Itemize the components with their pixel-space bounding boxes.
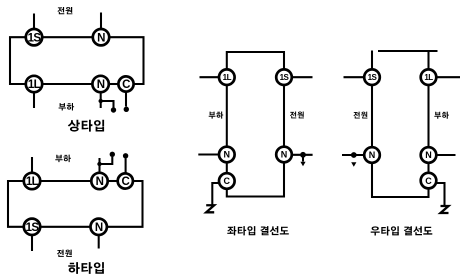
- svg-text:1S: 1S: [368, 73, 378, 82]
- terminal D1 C: [118, 76, 133, 91]
- svg-text:N: N: [281, 150, 288, 160]
- svg-text:C: C: [122, 79, 130, 91]
- terminal D4 N-right: [421, 147, 437, 163]
- terminal D4 1S: [364, 69, 380, 85]
- svg-text:N: N: [96, 176, 104, 188]
- svg-text:N: N: [425, 150, 432, 160]
- wire D4 bottom return N-left to C: [372, 163, 429, 198]
- wire D3 bottom return C to N-right: [227, 162, 284, 197]
- arrow D4 tap arrow (down): [351, 162, 356, 167]
- svg-text:1S: 1S: [28, 32, 42, 44]
- mark D3 lamp mark (z symbol): [206, 205, 214, 212]
- wire D4 left column 1S to N: [371, 85, 373, 148]
- wire D3 link N to C: [226, 162, 228, 174]
- wire D2 stub above 1L: [31, 157, 33, 173]
- terminal D4 N-left: [364, 147, 380, 163]
- wire D1 right frame N-top to C: [109, 37, 144, 84]
- label D2 load (부하): [55, 155, 71, 163]
- terminal D3 1S: [276, 69, 292, 85]
- wire D1 stub below 1L: [33, 92, 35, 108]
- junction dot D4 tap on N lead: [351, 152, 357, 158]
- junction dot D1 C lead end: [124, 107, 129, 112]
- label D4 power (전원): [353, 112, 367, 119]
- junction dot D3 tap on N lead: [300, 152, 306, 158]
- label D1 load (부하): [59, 103, 75, 111]
- label D3 caption (좌타입 결선도): [227, 226, 288, 235]
- terminal D3 1L: [219, 69, 235, 85]
- wire D1 left frame 1S to 1L: [10, 37, 26, 84]
- wire D2 stub below 1S: [31, 235, 33, 251]
- arrow D3 tap arrow (down): [300, 162, 305, 167]
- junction dot D2 N jumper junction: [97, 162, 101, 166]
- wire D3 lead left of 1L: [200, 76, 220, 78]
- svg-text:N: N: [97, 32, 105, 44]
- label D4 caption (우타입 결선도): [371, 226, 433, 235]
- wire D4 stub above 1S: [371, 51, 373, 70]
- wire D2 bottom link 1S to N: [40, 226, 91, 228]
- svg-text:C: C: [224, 176, 231, 186]
- svg-text:N: N: [97, 79, 105, 91]
- terminal D2 N-top: [91, 173, 107, 189]
- wire D2 link N to C: [108, 180, 118, 182]
- svg-text:N: N: [95, 222, 103, 234]
- terminal D4 C: [421, 173, 437, 189]
- wire D3 C lamp elbow: [212, 183, 220, 205]
- wire D1 link N to C: [109, 83, 119, 85]
- wire D3 left column 1L to N: [226, 85, 228, 148]
- svg-text:1L: 1L: [26, 176, 39, 188]
- wire D1 bottom link 1L to N: [42, 83, 93, 85]
- label D1 caption (상타입): [68, 120, 104, 132]
- terminal D1 1L: [26, 76, 42, 92]
- wire D1 N jumper stub: [100, 92, 102, 108]
- terminal D1 N-bottom: [92, 76, 108, 92]
- terminal D3 C: [219, 173, 235, 189]
- wire D4 right column 1L to N: [427, 85, 429, 148]
- label D1 power (전원): [57, 7, 72, 14]
- wire D3 lead right of N with tap: [291, 154, 312, 156]
- svg-text:1L: 1L: [424, 73, 433, 82]
- terminal D3 N-right: [276, 147, 292, 163]
- terminal D3 N-left: [219, 147, 235, 163]
- wire D2 top link 1L to N: [40, 180, 92, 182]
- wire D1 top link 1S to N: [42, 36, 93, 38]
- svg-text:N: N: [224, 150, 231, 160]
- svg-text:1L: 1L: [223, 73, 232, 82]
- wire D4 lead right of 1L: [437, 76, 461, 78]
- label D3 load (부하): [209, 112, 224, 119]
- junction dot D2 N jumper end: [110, 152, 115, 157]
- wire D1 N jumper elbow: [101, 101, 114, 108]
- wire D3 lead right of 1S: [291, 76, 312, 78]
- svg-text:N: N: [369, 150, 376, 160]
- junction dot D1 N jumper end: [111, 107, 116, 112]
- wire D2 stub above C: [125, 159, 127, 174]
- terminal D1 N-top: [93, 29, 109, 45]
- wire D2 N jumper stub: [98, 158, 100, 173]
- label D2 caption (하타입): [68, 262, 104, 274]
- svg-text:1L: 1L: [28, 79, 41, 91]
- wire D4 lead right of N: [436, 154, 456, 156]
- label D2 power (전원): [57, 250, 72, 257]
- terminal D4 1L: [421, 69, 437, 85]
- terminal D1 1S: [26, 29, 42, 45]
- label D3 power (전원): [290, 112, 304, 119]
- wire D1 stub above 1S: [33, 14, 35, 30]
- wire D3 right column 1S to N: [283, 85, 285, 148]
- svg-text:C: C: [121, 176, 129, 188]
- wire D3 lead left of N: [198, 153, 219, 155]
- svg-text:C: C: [425, 176, 432, 186]
- terminal D2 C: [118, 173, 133, 188]
- wire D3 top bridge 1L to 1S: [227, 52, 284, 70]
- terminal D2 N-bottom: [91, 219, 107, 235]
- wire D1 stub below C: [125, 92, 127, 107]
- junction dot D2 C lead end: [123, 153, 128, 158]
- wire D2 right frame C to N: [107, 181, 143, 227]
- terminal D2 1S: [24, 219, 40, 235]
- wire D2 left frame 1L to 1S: [8, 181, 24, 227]
- wire D4 top bridge to 1L: [378, 50, 438, 52]
- mark D4 lamp mark (z symbol): [441, 206, 449, 213]
- wire D4 link N to C: [427, 162, 429, 173]
- wire D2 stub below N: [98, 235, 100, 249]
- wire D2 N jumper elbow: [100, 157, 113, 164]
- junction dot D1 N jumper junction: [99, 99, 103, 103]
- svg-text:1S: 1S: [280, 73, 290, 82]
- wire D4 stub above 1L: [427, 51, 429, 70]
- wire D1 stub above N-top: [100, 13, 102, 30]
- label D4 load (부하): [434, 112, 449, 119]
- svg-text:1S: 1S: [26, 222, 40, 234]
- wire D4 lead left of N with tap: [342, 154, 364, 156]
- wire D4 lead left of 1S: [344, 76, 365, 78]
- wire D4 C lamp elbow: [435, 183, 444, 206]
- wire D3 tap stub: [302, 158, 304, 162]
- terminal D2 1L: [24, 173, 40, 189]
